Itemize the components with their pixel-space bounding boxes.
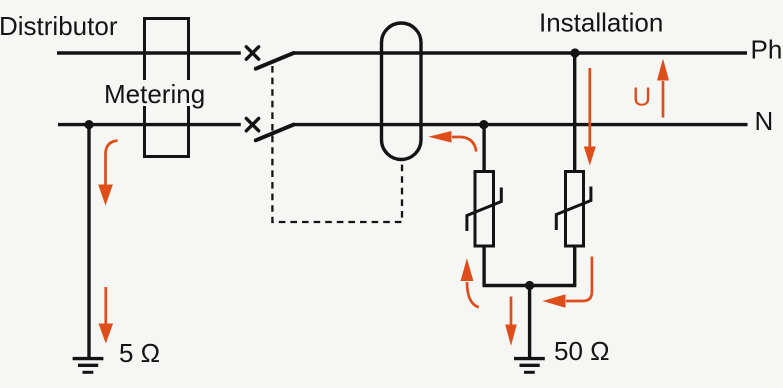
varistor SPD1 strike — [467, 188, 501, 232]
node N installation junction — [479, 120, 488, 129]
current arrow into toroid — [428, 131, 476, 152]
label Metering — [102, 79, 205, 109]
wire SPD2 bottom lead — [573, 246, 576, 286]
svg-text:Metering: Metering — [104, 79, 205, 109]
svg-text:N: N — [755, 106, 774, 136]
switch blade bottom (N) — [256, 125, 294, 141]
wire N bus distributor side — [58, 123, 241, 126]
contact X bottom (disconnector N) — [246, 118, 258, 130]
current arrow down SPD2 — [584, 68, 596, 166]
current arrow curl left earth — [543, 257, 592, 308]
wire earth electrode installation — [528, 286, 531, 359]
svg-text:5 Ω: 5 Ω — [119, 338, 160, 368]
current arrow down installation earth — [505, 297, 517, 347]
current arrow hook at metering — [98, 141, 117, 206]
wire earth electrode left — [87, 125, 90, 358]
svg-text:Ph: Ph — [751, 35, 783, 65]
varistor SPD2 body — [566, 172, 584, 247]
wire Ph bus installation side — [294, 51, 747, 54]
svg-text:Installation: Installation — [539, 7, 663, 37]
switch blade top (Ph) — [256, 53, 294, 69]
wire N bus installation side — [294, 123, 748, 126]
ground distributor earth — [73, 359, 104, 373]
wire Ph bus distributor side — [57, 51, 241, 54]
wire SPD1 bottom lead — [482, 246, 485, 286]
metering box — [145, 19, 189, 157]
varistor SPD2 strike — [556, 187, 591, 231]
current arrow down left earth — [99, 287, 114, 344]
wire earth bus bottom — [483, 284, 577, 287]
toroid current transformer — [382, 23, 422, 160]
wire SPD2 top lead — [573, 53, 576, 172]
varistor SPD1 body — [475, 172, 494, 247]
contact X top (disconnector Ph) — [246, 47, 258, 59]
mechanical link dashed — [272, 66, 402, 222]
svg-text:50 Ω: 50 Ω — [554, 336, 610, 366]
current arrow curl up SPD1 — [461, 258, 479, 307]
node Ph installation junction — [570, 48, 579, 57]
ground installation earth — [514, 359, 545, 373]
node N distributor junction — [84, 120, 93, 129]
svg-text:U: U — [633, 82, 652, 112]
wire SPD1 top lead — [482, 125, 485, 172]
svg-text:Distributor: Distributor — [0, 11, 118, 41]
voltage arrow U up — [657, 59, 669, 118]
node earth junction — [525, 281, 534, 290]
